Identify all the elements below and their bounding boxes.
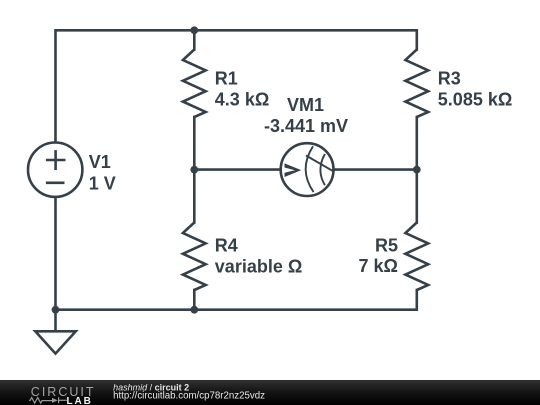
svg-text:R3: R3 bbox=[438, 69, 461, 89]
svg-text:R1: R1 bbox=[215, 69, 238, 89]
wire middle left (node A to voltmeter) bbox=[194, 168, 280, 171]
junction node A (R1/R4/VM1) bbox=[190, 166, 198, 174]
resistor R4 bbox=[183, 223, 206, 291]
resistor R1 bbox=[183, 50, 206, 118]
svg-text:VM1: VM1 bbox=[287, 95, 324, 115]
junction node ground rail (R4) bbox=[190, 306, 198, 314]
svg-text:5.085 kΩ: 5.085 kΩ bbox=[438, 89, 513, 109]
label R4 value variable Ω bbox=[215, 236, 302, 277]
wire R3 bottom to node B bbox=[415, 117, 418, 170]
wire R1 top stub bbox=[193, 30, 196, 49]
footer bar bbox=[0, 380, 540, 405]
resistor R5 bbox=[405, 223, 428, 291]
voltage source V1 bbox=[28, 143, 82, 197]
junction node B (R3/R5/VM1) bbox=[413, 166, 421, 174]
wire middle right (voltmeter to node B) bbox=[334, 168, 417, 171]
ground bbox=[35, 310, 76, 354]
wire R4 bottom stub bbox=[193, 290, 196, 310]
wire top rail bbox=[56, 30, 417, 142]
wire R1 bottom to node A bbox=[193, 117, 196, 170]
svg-text:http://circuitlab.com/cp78r2nz: http://circuitlab.com/cp78r2nz25vdz bbox=[113, 390, 265, 401]
label VM1 value -3.441 mV bbox=[264, 95, 348, 136]
svg-text:1 V: 1 V bbox=[89, 173, 116, 193]
svg-text:R5: R5 bbox=[375, 236, 398, 256]
label R1 value 4.3 kΩ bbox=[215, 69, 269, 110]
wire bottom rail bbox=[56, 290, 417, 310]
svg-text:V1: V1 bbox=[89, 152, 111, 172]
wire node B to R5 bbox=[415, 170, 418, 223]
svg-text:variable Ω: variable Ω bbox=[215, 257, 302, 277]
svg-text:4.3 kΩ: 4.3 kΩ bbox=[215, 89, 269, 109]
label R3 value 5.085 kΩ bbox=[438, 69, 513, 110]
CircuitLab logo bbox=[29, 385, 96, 405]
svg-text:R4: R4 bbox=[215, 236, 238, 256]
svg-text:LAB: LAB bbox=[67, 396, 93, 405]
junction node ground rail left bbox=[52, 306, 60, 314]
svg-text:-3.441 mV: -3.441 mV bbox=[264, 116, 348, 136]
voltmeter VM1 bbox=[281, 143, 334, 196]
wire left bottom (V1 minus to bottom rail) bbox=[54, 198, 57, 310]
svg-text:7 kΩ: 7 kΩ bbox=[359, 256, 398, 276]
label V1 value 1 V bbox=[89, 152, 116, 193]
label R5 value 7 kΩ bbox=[359, 236, 398, 277]
wire node A to R4 bbox=[193, 170, 196, 223]
resistor R3 bbox=[405, 50, 428, 118]
junction node top (R1 / top rail) bbox=[190, 26, 198, 34]
